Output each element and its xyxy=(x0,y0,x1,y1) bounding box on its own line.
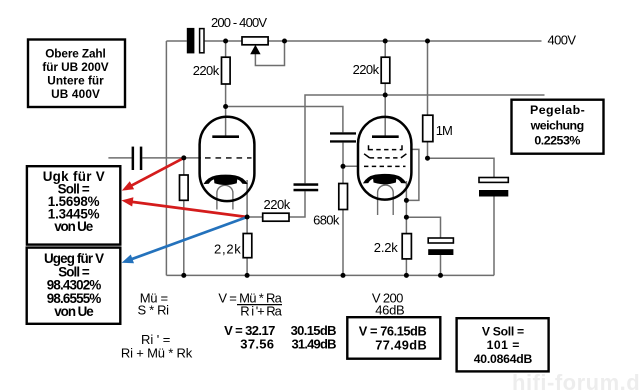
svg-text:UB 400V: UB 400V xyxy=(51,87,100,101)
svg-text:weichung: weichung xyxy=(530,118,585,132)
svg-text:77.49dB: 77.49dB xyxy=(375,338,427,353)
svg-text:Obere Zahl: Obere Zahl xyxy=(45,46,106,60)
svg-text:40.0864dB: 40.0864dB xyxy=(474,352,533,366)
svg-text:200 - 400V: 200 - 400V xyxy=(211,15,267,30)
svg-text:46dB: 46dB xyxy=(375,303,405,318)
svg-text:37.56: 37.56 xyxy=(240,337,274,352)
svg-text:2,2k: 2,2k xyxy=(214,241,241,256)
svg-text:101 =: 101 = xyxy=(487,338,520,352)
svg-text:Ri + Mü * Rk: Ri + Mü * Rk xyxy=(121,346,193,361)
svg-text:V = 76.15dB: V = 76.15dB xyxy=(359,324,427,339)
svg-text:680k: 680k xyxy=(313,213,340,228)
svg-text:1M: 1M xyxy=(436,123,453,138)
svg-text:31.49dB: 31.49dB xyxy=(292,337,337,352)
svg-text:220k: 220k xyxy=(264,197,291,212)
svg-text:für UB 200V: für UB 200V xyxy=(42,60,108,74)
svg-text:220k: 220k xyxy=(193,63,220,78)
svg-text:Untere für: Untere für xyxy=(47,74,104,88)
svg-text:0.2253%: 0.2253% xyxy=(534,134,580,148)
svg-text:Pegelab-: Pegelab- xyxy=(530,103,585,117)
svg-text:400V: 400V xyxy=(548,33,577,48)
svg-text:von Ue: von Ue xyxy=(54,219,93,234)
svg-text:R i '+ Ra: R i '+ Ra xyxy=(240,304,282,319)
svg-text:V Soll =: V Soll = xyxy=(482,324,524,338)
svg-text:2.2k: 2.2k xyxy=(374,240,399,255)
svg-text:220k: 220k xyxy=(353,62,380,77)
svg-text:S * Ri: S * Ri xyxy=(138,303,170,318)
svg-text:von Ue: von Ue xyxy=(54,304,94,319)
